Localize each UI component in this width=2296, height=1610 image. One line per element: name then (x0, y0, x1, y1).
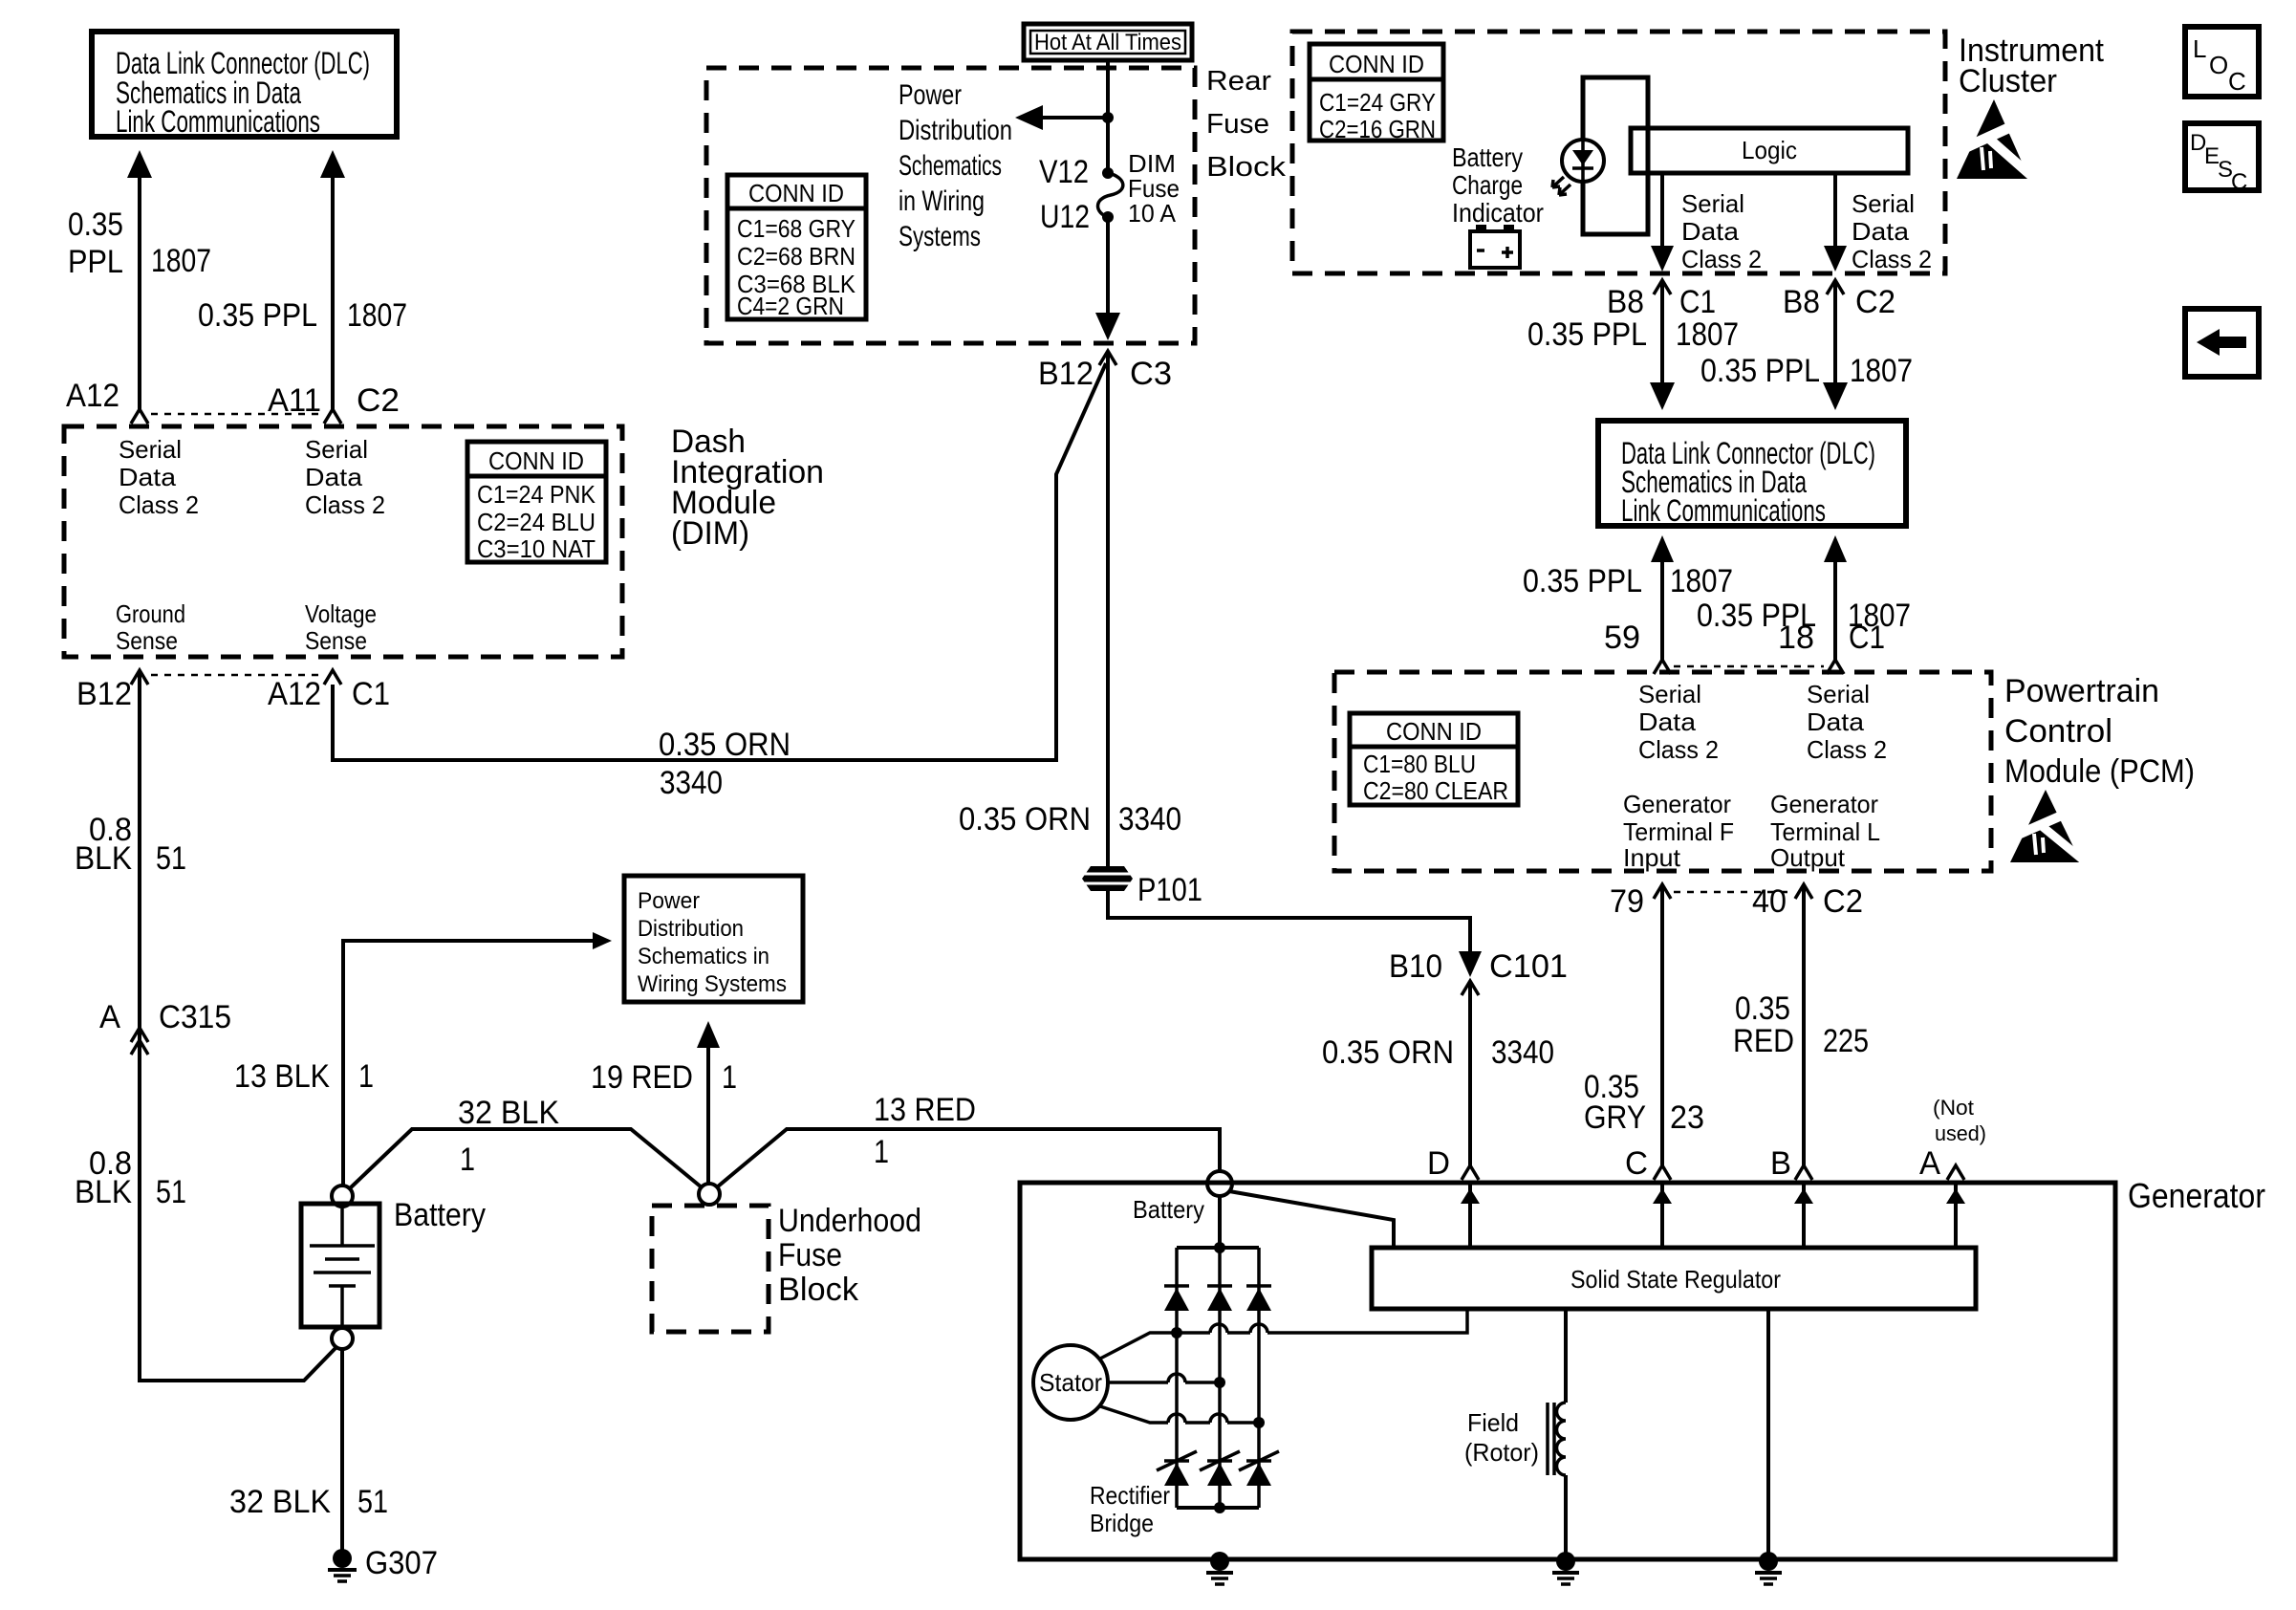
wire RED to generator B (1802, 884, 1806, 1166)
connector fork B12/C3 (1099, 351, 1116, 365)
svg-text:A11: A11 (268, 382, 321, 419)
svg-text:0.35 ORN: 0.35 ORN (1322, 1034, 1454, 1071)
ESD symbol (cluster) (1954, 99, 2038, 182)
svg-text:Data: Data (305, 463, 363, 491)
svg-text:Sense: Sense (116, 626, 178, 655)
svg-text:13 BLK: 13 BLK (234, 1058, 330, 1095)
terminal chevron A (1947, 1165, 1964, 1180)
svg-text:Fuse: Fuse (778, 1237, 842, 1273)
serial data wire 1 from logic (1651, 173, 1674, 272)
rectifier bridge label (1090, 1481, 1170, 1537)
wire 0.35 ORN to D terminal (1468, 981, 1472, 1166)
svg-text:Distribution: Distribution (899, 115, 1012, 146)
wire GRY to generator C (1660, 884, 1664, 1166)
svg-text:used): used) (1935, 1121, 1986, 1145)
connector fork A11/C2 (324, 409, 341, 424)
diode upper right (1246, 1286, 1271, 1311)
wire fuse output with down arrow (1095, 217, 1120, 340)
svg-text:Generator: Generator (1770, 790, 1878, 818)
svg-text:Battery: Battery (1133, 1195, 1204, 1224)
wire label 0.35 PPL 1807 row2 (1697, 598, 1911, 634)
fuse terminal V12 (1102, 167, 1114, 179)
svg-text:C2=24 BLU: C2=24 BLU (477, 508, 596, 536)
DIM text voltage sense (305, 599, 377, 655)
terminal wire D to regulator (1461, 1183, 1480, 1248)
hot at all times box (1024, 24, 1192, 60)
field rotor label (1464, 1408, 1539, 1467)
connector fork 79 (1654, 884, 1671, 899)
svg-text:B12: B12 (1038, 356, 1094, 392)
svg-text:Sense: Sense (305, 626, 367, 655)
svg-text:Schematics: Schematics (899, 150, 1002, 182)
svg-text:CONN ID: CONN ID (1329, 50, 1424, 78)
svg-text:23: 23 (1670, 1099, 1704, 1136)
svg-text:Battery: Battery (394, 1197, 486, 1233)
svg-text:1: 1 (460, 1142, 475, 1178)
svg-text:Serial: Serial (1681, 189, 1744, 218)
svg-text:1807: 1807 (1850, 353, 1913, 389)
svg-text:1807: 1807 (151, 243, 211, 279)
wire label 0.8 BLK 51 (upper) (75, 812, 186, 877)
svg-text:Generator: Generator (1623, 790, 1731, 818)
wire PPL from PCM 18 with up arrow (1824, 535, 1847, 661)
wire battery to G307 (340, 1349, 344, 1553)
PCM serial data class 2 (right) (1807, 680, 1887, 764)
svg-text:B10: B10 (1389, 948, 1442, 985)
svg-text:Class 2: Class 2 (305, 490, 385, 519)
svg-text:Link Communications: Link Communications (1621, 493, 1826, 528)
svg-text:Output: Output (1770, 843, 1846, 872)
svg-text:32 BLK: 32 BLK (229, 1484, 331, 1520)
svg-text:Module (PCM): Module (PCM) (2004, 753, 2195, 790)
svg-text:3340: 3340 (660, 765, 723, 801)
svg-text:C1: C1 (352, 676, 390, 712)
terminal chevron C (1654, 1165, 1671, 1180)
svg-text:C2=80 CLEAR: C2=80 CLEAR (1363, 776, 1508, 805)
svg-text:Data: Data (119, 463, 177, 491)
svg-text:C2: C2 (1855, 284, 1895, 320)
wire 1807 A12 to DLC (left) (127, 150, 152, 409)
svg-text:B: B (1770, 1145, 1791, 1182)
inline connector C315 (131, 1028, 148, 1055)
svg-text:PPL: PPL (68, 244, 123, 280)
svg-text:Hot At All Times: Hot At All Times (1034, 30, 1181, 55)
svg-text:Fuse: Fuse (1206, 109, 1269, 140)
svg-text:51: 51 (357, 1484, 388, 1520)
svg-text:1: 1 (874, 1134, 889, 1170)
PCM generator terminal F input text (1623, 790, 1734, 872)
svg-text:RED: RED (1733, 1023, 1794, 1059)
battery feed diagonal to regulator (1229, 1191, 1394, 1248)
svg-text:P101: P101 (1137, 872, 1202, 908)
wire label 13 BLK 1 (234, 1058, 374, 1095)
ground regulator (1755, 1552, 1782, 1584)
wire hot feed into fuse block (1106, 60, 1110, 173)
terminal wire B to regulator (1794, 1183, 1813, 1248)
wire label 32 BLK 1 (458, 1095, 559, 1178)
svg-text:Block: Block (1206, 152, 1287, 183)
svg-text:C: C (2231, 169, 2247, 195)
svg-text:CONN ID: CONN ID (1386, 717, 1482, 746)
svg-text:51: 51 (156, 1174, 186, 1210)
svg-text:32 BLK: 32 BLK (458, 1095, 559, 1131)
svg-text:G307: G307 (365, 1545, 438, 1581)
terminal wire A to regulator (1946, 1183, 1965, 1248)
serial data wire 2 from logic (1824, 173, 1847, 272)
avalanche diode lower middle (1200, 1451, 1240, 1486)
svg-text:C: C (2228, 67, 2246, 96)
svg-text:(Rotor): (Rotor) (1464, 1438, 1539, 1467)
svg-text:1: 1 (358, 1058, 374, 1095)
wire 13 RED underhood to generator (718, 1129, 1220, 1186)
connector fork A12/C1 (324, 670, 341, 685)
terminal wire C to regulator (1653, 1183, 1672, 1248)
arrow to power distribution schematics (1015, 105, 1108, 130)
connector dashed line 79-40 (1674, 891, 1792, 894)
wire label 0.35 ORN 3340 (horizontal) (659, 727, 791, 801)
svg-text:L: L (2193, 34, 2206, 63)
svg-text:C2=68 BRN: C2=68 BRN (737, 242, 856, 271)
svg-text:Class 2: Class 2 (1681, 245, 1762, 273)
svg-text:A12: A12 (66, 378, 119, 414)
serial data class 2 text (left) (1681, 189, 1762, 273)
wire label 0.8 BLK 51 (lower) (75, 1145, 186, 1210)
connector fork 59 (1654, 660, 1671, 674)
svg-text:Serial: Serial (1852, 189, 1915, 218)
DIM text ground sense (116, 599, 185, 655)
stator phase 2 wire (1108, 1374, 1225, 1388)
connector fork 18/C1 (1827, 660, 1844, 674)
svg-text:C101: C101 (1489, 948, 1568, 985)
svg-text:Field: Field (1467, 1408, 1519, 1437)
svg-text:U12: U12 (1040, 199, 1090, 235)
wire 32 BLK battery to underhood (350, 1129, 702, 1188)
svg-text:51: 51 (156, 840, 186, 877)
svg-text:Class 2: Class 2 (1638, 735, 1719, 764)
svg-text:Data: Data (1681, 217, 1740, 246)
svg-text:Serial: Serial (1638, 680, 1701, 708)
junction dot bridge bottom (1214, 1502, 1225, 1513)
generator box (1020, 1183, 2115, 1559)
svg-text:Rear: Rear (1206, 66, 1271, 97)
fuse terminal U12 (1102, 211, 1114, 223)
wire label 32 BLK 51 (229, 1484, 388, 1520)
svg-text:59: 59 (1604, 620, 1640, 656)
wire label 0.35 PPL 1807 (68, 207, 211, 280)
DESC box (2185, 123, 2259, 195)
svg-text:Powertrain: Powertrain (2004, 673, 2159, 709)
DIM text serial data class 2 (left) (119, 435, 199, 519)
svg-text:Schematics in: Schematics in (638, 944, 769, 969)
svg-text:Voltage: Voltage (305, 599, 377, 628)
battery icon (1470, 225, 1520, 268)
svg-text:Input: Input (1623, 843, 1681, 872)
svg-text:79: 79 (1610, 883, 1644, 920)
wire ORN main vertical (1106, 351, 1110, 866)
diode upper middle (1207, 1286, 1232, 1311)
svg-text:Serial: Serial (119, 435, 182, 464)
wire label 0.35 ORN 3340 (1322, 1034, 1554, 1071)
wire label 0.35 ORN 3340 (vertical) (959, 801, 1181, 838)
svg-text:D: D (1427, 1145, 1450, 1182)
svg-text:Rectifier: Rectifier (1090, 1481, 1170, 1510)
svg-text:10 A: 10 A (1128, 199, 1177, 228)
DIM fuse element (1098, 173, 1123, 217)
svg-text:O: O (2209, 51, 2228, 79)
svg-text:Class 2: Class 2 (119, 490, 199, 519)
svg-text:C3: C3 (1130, 356, 1172, 392)
DLC reference box top-left (92, 32, 397, 139)
wire label 0.35 PPL 1807 row1 (1527, 316, 1739, 353)
connector dashed line 59-18 (1674, 665, 1824, 668)
svg-text:3340: 3340 (1118, 801, 1181, 838)
DIM text serial data class 2 (right) (305, 435, 385, 519)
svg-text:V12: V12 (1039, 154, 1089, 190)
charge indicator LED (1552, 140, 1604, 195)
svg-text:Generator: Generator (2128, 1176, 2265, 1215)
rear fuse block dashed box (706, 68, 1195, 343)
wire 13 BLK vertical (341, 939, 345, 1186)
instrument cluster dashed box (1292, 32, 1945, 273)
svg-text:C1=24 GRY: C1=24 GRY (1319, 88, 1436, 117)
rectifier bridge frame (1177, 1248, 1259, 1508)
DIM module dashed box (64, 426, 622, 657)
DIM CONN ID table (467, 442, 606, 563)
svg-text:0.35: 0.35 (1735, 990, 1790, 1027)
svg-text:Control: Control (2004, 713, 2112, 750)
svg-text:C4=2 GRN: C4=2 GRN (737, 292, 844, 320)
svg-text:1: 1 (722, 1059, 737, 1096)
svg-text:Battery: Battery (1452, 142, 1523, 172)
svg-text:C: C (1625, 1145, 1648, 1182)
svg-text:A: A (99, 999, 120, 1035)
terminal chevron B (1795, 1165, 1812, 1180)
underhood fuse block dashed box (652, 1206, 769, 1332)
wire ORN to generator D (1108, 891, 1470, 960)
svg-text:19 RED: 19 RED (591, 1059, 693, 1096)
svg-text:Distribution: Distribution (638, 916, 744, 942)
ground field (1552, 1552, 1579, 1584)
svg-text:B8: B8 (1607, 284, 1644, 320)
battery drop to rectifier (1218, 1196, 1222, 1248)
solid state regulator box (1372, 1248, 1976, 1309)
terminal chevron D (1462, 1165, 1479, 1180)
svg-text:Serial: Serial (1807, 680, 1870, 708)
svg-text:1807: 1807 (1670, 563, 1733, 599)
svg-text:18: 18 (1778, 620, 1814, 656)
svg-text:in Wiring: in Wiring (899, 185, 985, 217)
rear fuse block label (1206, 66, 1287, 183)
svg-text:C1=68 GRY: C1=68 GRY (737, 214, 856, 243)
ground rectifier (1206, 1552, 1233, 1584)
battery top terminal circle (332, 1186, 353, 1207)
svg-text:Terminal L: Terminal L (1770, 817, 1880, 846)
svg-text:C2=16 GRN: C2=16 GRN (1319, 115, 1436, 143)
svg-text:Serial: Serial (305, 435, 368, 464)
svg-text:225: 225 (1823, 1023, 1869, 1059)
PCM dashed box (1334, 672, 1991, 871)
connector dashed line B12-A12 (151, 674, 321, 677)
svg-text:BLK: BLK (75, 1174, 132, 1210)
inline connector B10/C101 (1459, 951, 1482, 995)
wire 19 RED with up arrow (697, 1021, 720, 1184)
svg-text:C315: C315 (159, 999, 231, 1035)
svg-text:GRY: GRY (1584, 1099, 1646, 1136)
PCM title label (2004, 673, 2195, 790)
wire label 19 RED 1 (591, 1059, 737, 1096)
generator battery terminal circle (1207, 1171, 1232, 1196)
underhood fuse block junction circle (699, 1184, 720, 1205)
svg-text:0.35: 0.35 (68, 207, 123, 243)
connector fork A12 (131, 409, 148, 424)
wire label 0.35 PPL 1807 row1 (1523, 563, 1733, 599)
svg-text:Power: Power (638, 888, 700, 914)
svg-text:Ground: Ground (116, 599, 185, 628)
battery charge indicator label (1452, 142, 1544, 228)
svg-text:A12: A12 (268, 676, 321, 712)
svg-text:C3=10 NAT: C3=10 NAT (477, 534, 596, 563)
ground G307 (328, 1549, 357, 1581)
connector fork B8/C1 (1654, 280, 1671, 294)
connector dashed line A12-A11 (151, 413, 321, 416)
arrow to power distribution box (341, 932, 612, 949)
connector fork 40/C2 (1795, 884, 1812, 899)
regulator ground wire (1766, 1309, 1770, 1559)
svg-text:Charge: Charge (1452, 170, 1523, 200)
wire label 13 RED 1 (874, 1092, 976, 1170)
svg-text:Link Communications: Link Communications (116, 104, 320, 139)
logic box (1631, 128, 1908, 173)
underhood fuse block label (778, 1203, 921, 1308)
wire 0.8 BLK 51 vertical (138, 670, 141, 1381)
svg-text:Data: Data (1638, 707, 1697, 736)
svg-text:C1=24 PNK: C1=24 PNK (477, 480, 596, 509)
back arrow box (2185, 309, 2259, 377)
inline connector P101 (1082, 866, 1133, 891)
avalanche diode lower left (1157, 1451, 1197, 1486)
svg-text:Block: Block (778, 1272, 859, 1308)
svg-text:1807: 1807 (1676, 316, 1739, 353)
stator phase 3 wire (1100, 1406, 1265, 1428)
DLC reference box center (1598, 421, 1906, 528)
wire 1807 A11 to DLC (right) (320, 150, 345, 409)
svg-text:CONN ID: CONN ID (748, 179, 844, 207)
cluster CONN ID table (1310, 44, 1443, 143)
svg-text:40: 40 (1752, 883, 1787, 920)
wire label 0.35 RED 225 (1733, 990, 1869, 1059)
LOC box (2185, 27, 2259, 97)
wire PPL from PCM 59 with up arrow (1651, 535, 1674, 661)
stator (1033, 1345, 1108, 1420)
svg-text:C2: C2 (357, 382, 400, 419)
svg-text:(DIM): (DIM) (671, 515, 749, 552)
PCM generator terminal L output text (1770, 790, 1880, 872)
svg-text:Underhood: Underhood (778, 1203, 921, 1239)
svg-text:Solid State Regulator: Solid State Regulator (1570, 1265, 1781, 1294)
fuse label DIM Fuse 10 A (1128, 149, 1180, 228)
PCM serial data class 2 (left) (1638, 680, 1719, 764)
PCM CONN ID table (1350, 713, 1518, 805)
svg-text:13 RED: 13 RED (874, 1092, 976, 1128)
svg-text:0.35 PPL: 0.35 PPL (1527, 316, 1647, 353)
svg-text:0.35 ORN: 0.35 ORN (659, 727, 791, 763)
svg-text:B8: B8 (1783, 284, 1820, 320)
ESD symbol (PCM) (2007, 790, 2090, 865)
svg-text:Power: Power (899, 79, 962, 111)
junction node (1102, 112, 1114, 123)
wire label 0.35 GRY 23 (1584, 1069, 1704, 1136)
svg-text:CONN ID: CONN ID (488, 446, 584, 475)
wire label 0.35 PPL 1807 (198, 297, 407, 334)
svg-text:Systems: Systems (899, 221, 981, 252)
svg-text:(Not: (Not (1933, 1096, 1974, 1120)
svg-text:Indicator: Indicator (1452, 198, 1544, 228)
svg-text:A: A (1919, 1145, 1940, 1182)
svg-text:Stator: Stator (1039, 1368, 1102, 1397)
svg-text:Class 2: Class 2 (1852, 245, 1932, 273)
stator phase 1 wire (1100, 1311, 1467, 1359)
label not used (1933, 1096, 1986, 1145)
svg-text:0.35 ORN: 0.35 ORN (959, 801, 1091, 838)
svg-text:C1=80 BLU: C1=80 BLU (1363, 750, 1476, 778)
serial data class 2 text (right) (1852, 189, 1932, 273)
field rotor coil (1548, 1309, 1566, 1559)
svg-text:Data: Data (1807, 707, 1865, 736)
avalanche diode lower right (1239, 1451, 1279, 1486)
svg-text:Bridge: Bridge (1090, 1509, 1154, 1537)
power distribution reference box (624, 876, 803, 1002)
connector fork B12 (131, 670, 148, 685)
svg-text:Cluster: Cluster (1959, 63, 2057, 99)
svg-text:0.35 PPL: 0.35 PPL (198, 297, 317, 334)
diode upper left (1164, 1286, 1189, 1311)
junction dot bridge top (1214, 1242, 1225, 1253)
svg-text:1807: 1807 (347, 297, 407, 334)
wire elbow to battery negative (138, 1347, 336, 1381)
svg-text:Wiring Systems: Wiring Systems (638, 971, 787, 997)
svg-text:3340: 3340 (1491, 1034, 1554, 1071)
wire ORN from DIM C1 (333, 363, 1106, 760)
svg-text:0.35 PPL: 0.35 PPL (1523, 563, 1642, 599)
instrument cluster label (1959, 33, 2105, 99)
svg-text:C1: C1 (1679, 284, 1716, 320)
svg-text:C1: C1 (1849, 620, 1885, 656)
wire PPL to DLC with down arrow (left) (1650, 280, 1675, 410)
battery bottom terminal circle (332, 1328, 353, 1349)
fuse block CONN ID table (727, 175, 866, 320)
battery symbol (301, 1204, 379, 1327)
svg-text:Data: Data (1852, 217, 1910, 246)
svg-text:Class 2: Class 2 (1807, 735, 1887, 764)
wire PPL to DLC with down arrow (right) (1823, 280, 1848, 410)
svg-text:B12: B12 (76, 676, 132, 712)
wire label 0.35 PPL 1807 row2 (1700, 353, 1913, 389)
power distribution schematics text (899, 79, 1012, 252)
svg-text:BLK: BLK (75, 840, 132, 877)
svg-text:Logic: Logic (1742, 136, 1797, 164)
svg-text:Terminal F: Terminal F (1623, 817, 1734, 846)
svg-text:0.35 PPL: 0.35 PPL (1700, 353, 1820, 389)
indicator circuit loop (1583, 77, 1648, 234)
connector fork B8/C2 (1827, 280, 1844, 294)
DIM title label (671, 424, 824, 552)
svg-text:C2: C2 (1823, 883, 1863, 920)
